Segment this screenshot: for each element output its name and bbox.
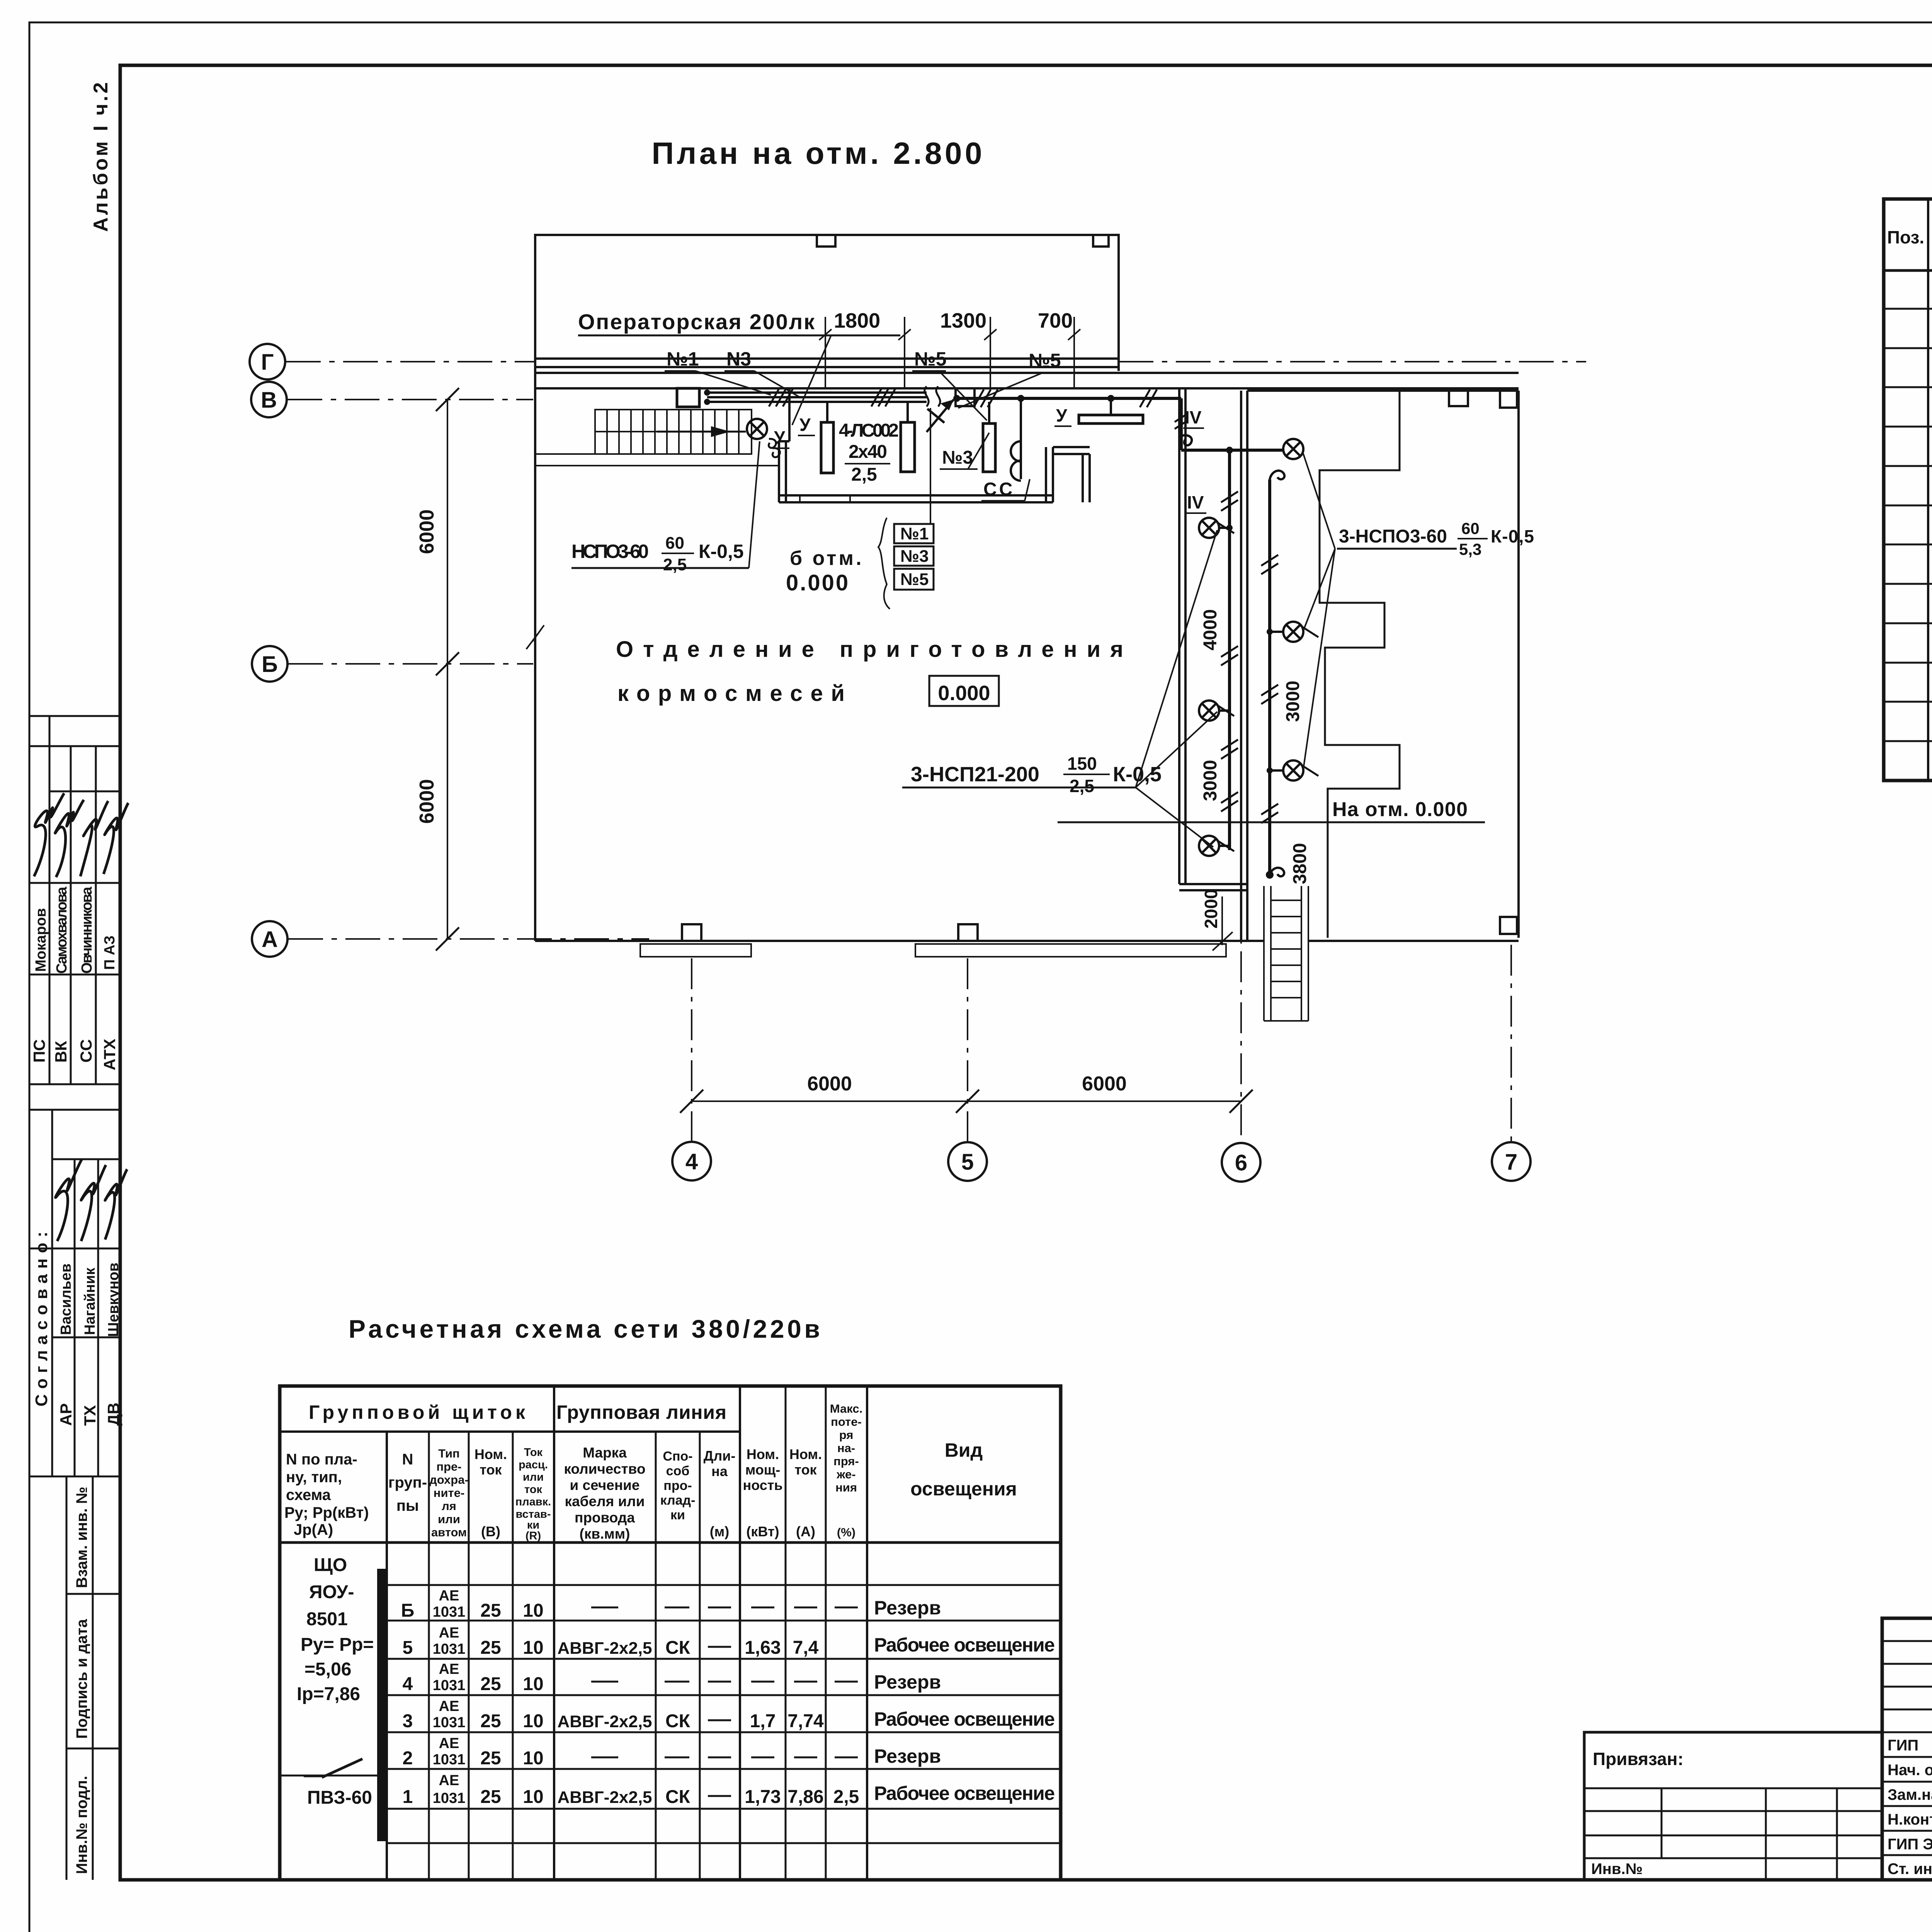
hash groups left wire	[1221, 492, 1238, 511]
svg-text:№3: №3	[942, 447, 973, 468]
svg-text:ЯОУ-: ЯОУ-	[309, 1582, 354, 1602]
svg-text:Jр(А): Jр(А)	[294, 1521, 333, 1538]
svg-text:Ток: Ток	[524, 1446, 543, 1459]
switch hooks near stair lamp	[769, 439, 780, 457]
svg-text:А: А	[262, 927, 278, 952]
svg-text:2: 2	[403, 1748, 413, 1769]
lamp R2	[1283, 622, 1318, 642]
fluorescent fixture 3	[983, 423, 995, 472]
svg-text:Рабочее освещение: Рабочее освещение	[874, 1634, 1055, 1656]
footing strip center	[915, 944, 1226, 957]
svg-text:(м): (м)	[710, 1524, 730, 1539]
level box 0.000	[929, 676, 999, 706]
svg-text:1031: 1031	[433, 1641, 466, 1657]
svg-text:груп-: груп-	[388, 1474, 427, 1491]
grid circle 5	[948, 1142, 987, 1181]
svg-text:25: 25	[480, 1748, 501, 1769]
svg-text:соб: соб	[666, 1464, 690, 1478]
привязан table	[1584, 1732, 1882, 1880]
stubs to right lamps	[1270, 631, 1283, 633]
svg-text:2,5: 2,5	[851, 464, 877, 485]
axis 5 dash-dot	[967, 958, 968, 1141]
wall break symbol	[526, 625, 544, 649]
wire bundle 3 lines	[707, 391, 927, 394]
svg-text:пре-: пре-	[436, 1460, 461, 1473]
svg-text:Iр=7,86: Iр=7,86	[297, 1684, 360, 1704]
fluorescent fixture 1	[821, 422, 833, 473]
hook drop symbol	[1181, 435, 1192, 445]
svg-text:Ном.: Ном.	[474, 1446, 507, 1462]
svg-text:Марка: Марка	[583, 1445, 627, 1461]
svg-text:Взам. инв. №: Взам. инв. №	[73, 1487, 90, 1588]
hash on wire	[974, 389, 998, 407]
svg-text:Резерв: Резерв	[874, 1597, 941, 1619]
operator room outline	[535, 235, 1119, 371]
right vertical wire	[1268, 480, 1271, 875]
svg-text:СК: СК	[665, 1638, 690, 1658]
svg-text:700: 700	[1038, 309, 1073, 332]
svg-text:ток: ток	[524, 1483, 543, 1496]
svg-text:N3: N3	[726, 348, 751, 370]
svg-text:или: или	[438, 1512, 460, 1526]
svg-text:же-: же-	[836, 1468, 855, 1481]
table grid	[280, 1386, 1061, 1880]
svg-text:6000: 6000	[1082, 1073, 1127, 1095]
svg-text:1031: 1031	[433, 1752, 466, 1768]
svg-text:ря: ря	[839, 1428, 854, 1442]
panel ЯОУ box	[677, 388, 699, 407]
svg-text:АЕ: АЕ	[439, 1625, 459, 1641]
grid circle 4	[672, 1142, 711, 1180]
svg-text:25: 25	[480, 1600, 501, 1621]
svg-text:150: 150	[1067, 753, 1097, 774]
bundle end dots	[704, 389, 710, 396]
svg-text:1,7: 1,7	[750, 1711, 776, 1731]
svg-text:IV: IV	[1187, 492, 1204, 512]
svg-text:10: 10	[523, 1600, 543, 1621]
svg-text:на: на	[711, 1463, 728, 1479]
corridor wall left double	[1178, 388, 1180, 884]
axis 4 dash-dot	[691, 958, 692, 1141]
column at grid 5	[958, 924, 978, 941]
vertical dimension line left	[447, 400, 448, 939]
svg-text:Рабочее освещение: Рабочее освещение	[874, 1708, 1055, 1730]
svg-text:на-: на-	[837, 1441, 855, 1455]
svg-text:2,5: 2,5	[1070, 776, 1094, 796]
svg-text:СК: СК	[665, 1711, 690, 1731]
svg-text:К-0,5: К-0,5	[1491, 526, 1534, 546]
svg-text:П АЗ: П АЗ	[102, 935, 118, 970]
svg-text:3: 3	[403, 1711, 413, 1731]
svg-text:(В): (В)	[481, 1524, 500, 1539]
junction dots left wire	[1226, 525, 1233, 531]
corridor closure bottom	[1179, 883, 1248, 885]
upper narrow rows	[1882, 1641, 1932, 1709]
svg-text:кабеля или: кабеля или	[565, 1493, 645, 1509]
svg-text:Нагайник: Нагайник	[82, 1267, 98, 1335]
svg-text:провода: провода	[575, 1510, 635, 1526]
lamp L2	[1199, 701, 1234, 721]
window detail in lower wall	[800, 495, 850, 502]
svg-text:ГИП: ГИП	[1888, 1737, 1918, 1754]
grid circle Г	[250, 344, 285, 379]
svg-text:расц.: расц.	[519, 1459, 548, 1471]
svg-text:6000: 6000	[416, 779, 438, 824]
right jog vertical double	[1082, 454, 1084, 502]
column headers	[284, 1402, 1017, 1542]
svg-text:В: В	[261, 388, 277, 413]
wall Г double line	[535, 357, 1119, 360]
svg-text:6: 6	[1235, 1150, 1247, 1175]
svg-text:5,3: 5,3	[1459, 540, 1481, 558]
svg-text:поте-: поте-	[831, 1415, 862, 1429]
svg-text:АЕ: АЕ	[439, 1661, 459, 1677]
svg-text:Мокаров: Мокаров	[33, 908, 49, 972]
svg-text:Операторская 200лк: Операторская 200лк	[578, 310, 815, 334]
grid numbers	[685, 1149, 1517, 1175]
svg-text:плавк.: плавк.	[515, 1496, 551, 1508]
building bottom wall	[535, 940, 1264, 942]
svg-text:4000: 4000	[1200, 609, 1221, 651]
axis 6 dash-dot	[1240, 900, 1242, 1142]
svg-text:1800: 1800	[834, 309, 880, 332]
svg-text:НСПО3-60: НСПО3-60	[571, 541, 649, 562]
svg-text:Групповой щиток: Групповой щиток	[309, 1401, 526, 1423]
svg-text:ГИП Э: ГИП Э	[1888, 1836, 1932, 1853]
svg-text:дохра-: дохра-	[429, 1473, 469, 1486]
svg-text:АВВГ-2х2,5: АВВГ-2х2,5	[557, 1639, 652, 1658]
svg-text:25: 25	[480, 1787, 501, 1807]
svg-text:Б: Б	[262, 652, 278, 677]
operator room left wall double	[778, 441, 780, 502]
svg-text:№5: №5	[914, 348, 947, 370]
lighting kind column	[874, 1597, 1055, 1804]
svg-text:0.000: 0.000	[938, 682, 990, 705]
svg-text:ЩО: ЩО	[314, 1555, 347, 1575]
svg-text:1,73: 1,73	[745, 1787, 781, 1807]
panel id texts col1	[297, 1555, 374, 1808]
svg-text:АЕ: АЕ	[439, 1735, 459, 1752]
svg-text:2,5: 2,5	[663, 555, 687, 574]
svg-text:ТХ: ТХ	[81, 1405, 99, 1426]
svg-text:Спо-: Спо-	[663, 1449, 692, 1464]
svg-text:0.000: 0.000	[786, 570, 850, 595]
staircase block	[595, 410, 752, 454]
svg-text:автом: автом	[431, 1526, 467, 1539]
svg-text:4: 4	[403, 1674, 413, 1694]
wall В double line	[535, 372, 1519, 374]
arrow into stairs	[657, 431, 746, 433]
switch symbol	[304, 1776, 322, 1777]
svg-text:Согласовано:: Согласовано:	[32, 1226, 51, 1406]
svg-text:25: 25	[480, 1674, 501, 1694]
svg-text:=5,06: =5,06	[304, 1659, 351, 1680]
svg-text:6000: 6000	[807, 1073, 852, 1095]
svg-text:10: 10	[523, 1638, 543, 1658]
hash on corner	[1175, 413, 1188, 429]
svg-text:№3: №3	[900, 547, 929, 566]
svg-text:Дли-: Дли-	[704, 1448, 736, 1464]
right building top wall	[1247, 389, 1519, 392]
vestibule lines below stairs	[535, 453, 752, 455]
svg-text:5: 5	[403, 1638, 413, 1658]
column marks on top wall	[817, 235, 835, 247]
svg-text:На отм. 0.000: На отм. 0.000	[1332, 798, 1468, 821]
svg-text:Н.контр.: Н.контр.	[1888, 1811, 1932, 1828]
svg-text:Отделение приготовления: Отделение приготовления	[616, 637, 1123, 662]
leader from 200лк to fixture	[792, 336, 831, 425]
group number boxes	[878, 408, 934, 609]
svg-text:Тип: Тип	[438, 1447, 460, 1460]
axis Г dash-dot line	[286, 361, 1586, 362]
svg-text:Г: Г	[261, 350, 274, 375]
svg-text:АЕ: АЕ	[439, 1588, 459, 1604]
svg-text:IV: IV	[1185, 407, 1202, 427]
title block outline	[1882, 1618, 1932, 1880]
lamp R3	[1283, 760, 1318, 781]
svg-text:2000: 2000	[1201, 889, 1221, 929]
svg-text:У: У	[1056, 405, 1068, 425]
svg-text:ки: ки	[670, 1508, 685, 1522]
horizontal dimension line bottom	[692, 1100, 1241, 1102]
svg-text:Альбом I ч.2: Альбом I ч.2	[90, 80, 112, 232]
svg-text:б отм.: б отм.	[790, 547, 864, 570]
grid circle 7	[1492, 1142, 1531, 1181]
svg-text:Овчинникова: Овчинникова	[79, 886, 95, 974]
operator room right wall double	[1045, 447, 1047, 502]
svg-text:(R): (R)	[526, 1530, 541, 1542]
dim leader verticals	[792, 317, 1080, 425]
staff rows	[1882, 1732, 1932, 1855]
svg-text:АВВГ-2х2,5: АВВГ-2х2,5	[557, 1788, 652, 1807]
corridor wall right double	[1240, 391, 1242, 941]
svg-text:схема: схема	[286, 1486, 331, 1503]
svg-text:(А): (А)	[796, 1524, 815, 1539]
svg-text:10: 10	[523, 1674, 543, 1694]
left vertical wire	[1228, 450, 1231, 850]
svg-text:1,63: 1,63	[745, 1638, 781, 1658]
svg-text:4-ЛС002: 4-ЛС002	[839, 420, 899, 441]
svg-text:У: У	[799, 415, 811, 435]
svg-text:10: 10	[523, 1711, 543, 1731]
svg-text:или: или	[523, 1471, 544, 1483]
svg-text:Поз.: Поз.	[1887, 227, 1924, 247]
svg-text:Резерв: Резерв	[874, 1745, 941, 1767]
right building partition E-shape	[1320, 391, 1400, 938]
second approval table lines	[29, 1109, 120, 1111]
hash groups right wire	[1261, 555, 1278, 574]
svg-text:ность: ность	[743, 1477, 782, 1493]
svg-text:пря-: пря-	[833, 1454, 859, 1468]
right jog horizontal double	[1053, 446, 1090, 448]
svg-text:СС: СС	[983, 479, 1015, 500]
ladder rungs	[1271, 900, 1301, 998]
dim 2000 tick line	[1221, 896, 1223, 945]
svg-text:Подпись и дата: Подпись и дата	[73, 1619, 90, 1739]
svg-text:7: 7	[1505, 1150, 1517, 1175]
svg-text:Ст. инж.: Ст. инж.	[1888, 1861, 1932, 1878]
svg-text:АЕ: АЕ	[439, 1772, 459, 1789]
axis 7 dash-dot	[1510, 945, 1512, 1141]
cable break symbol	[925, 386, 940, 406]
grid circle Б	[252, 646, 287, 682]
pendant bar luminaire	[1079, 415, 1143, 423]
junction to CC device	[1017, 395, 1024, 402]
svg-text:мощ-: мощ-	[745, 1462, 781, 1478]
svg-text:и сечение: и сечение	[570, 1477, 640, 1493]
svg-text:освещения: освещения	[910, 1478, 1017, 1500]
hash marks on bundle	[769, 389, 793, 406]
svg-text:1: 1	[403, 1787, 413, 1807]
lamp R1	[1283, 439, 1303, 459]
operator room lower wall double	[779, 494, 1053, 497]
svg-text:(%): (%)	[837, 1526, 855, 1539]
svg-text:3-НСПО3-60: 3-НСПО3-60	[1339, 526, 1447, 547]
svg-text:3000: 3000	[1283, 681, 1303, 722]
svg-text:Привязан:: Привязан:	[1593, 1749, 1684, 1769]
svg-text:7,74: 7,74	[787, 1711, 824, 1731]
CC device arcs	[1011, 441, 1021, 481]
bus bar	[377, 1569, 386, 1841]
dash marks for reserve rows	[591, 1607, 858, 1796]
svg-text:10: 10	[523, 1787, 543, 1807]
building right wall	[1517, 391, 1520, 938]
svg-text:4: 4	[685, 1149, 698, 1174]
axis В dash-dot line	[287, 399, 533, 400]
svg-text:У: У	[774, 427, 786, 447]
lower filing cells	[66, 1593, 120, 1595]
column at grid 4	[682, 924, 701, 941]
svg-text:ну, тип,: ну, тип,	[286, 1469, 342, 1486]
svg-text:ток: ток	[794, 1462, 817, 1478]
dim ticks vertical line	[436, 388, 459, 411]
svg-text:Васильев: Васильев	[58, 1264, 74, 1335]
svg-text:ПВЗ-60: ПВЗ-60	[307, 1787, 372, 1808]
svg-text:7,4: 7,4	[793, 1638, 819, 1658]
svg-text:5: 5	[961, 1150, 974, 1175]
svg-text:АЕ: АЕ	[439, 1698, 459, 1714]
footing strip left	[640, 944, 751, 957]
signatures upper table	[34, 793, 128, 1241]
stubs to left lamps	[1219, 527, 1230, 529]
svg-text:25: 25	[480, 1711, 501, 1731]
hook top	[1270, 471, 1284, 480]
svg-text:6000: 6000	[416, 509, 438, 554]
svg-text:Ном.: Ном.	[789, 1446, 822, 1462]
axis А dash-dot line	[288, 938, 649, 940]
svg-text:№1: №1	[900, 524, 929, 543]
grid letters	[261, 350, 278, 952]
svg-text:3-НСП21-200: 3-НСП21-200	[911, 763, 1039, 786]
header texts	[1887, 221, 1932, 262]
svg-text:ния: ния	[835, 1481, 857, 1494]
svg-text:Инв.№: Инв.№	[1591, 1861, 1643, 1878]
svg-text:1031: 1031	[433, 1714, 466, 1731]
svg-text:Вид: Вид	[945, 1439, 983, 1461]
underline	[578, 335, 900, 337]
svg-text:Зам.нач.: Зам.нач.	[1888, 1786, 1932, 1803]
svg-text:Шевкунов: Шевкунов	[105, 1263, 122, 1337]
shaft bottom	[1264, 1020, 1308, 1022]
svg-text:60: 60	[665, 534, 684, 553]
svg-text:(кВт): (кВт)	[746, 1524, 779, 1539]
wire continues right	[957, 397, 1181, 400]
svg-text:АР: АР	[57, 1403, 75, 1426]
svg-text:(кв.мм): (кв.мм)	[580, 1526, 630, 1542]
svg-text:СК: СК	[665, 1787, 690, 1807]
svg-text:№1: №1	[667, 348, 699, 370]
svg-text:пы: пы	[396, 1497, 419, 1514]
svg-text:№5: №5	[900, 570, 929, 589]
svg-text:Ру; Рр(кВт): Ру; Рр(кВт)	[284, 1504, 369, 1521]
svg-text:60: 60	[1461, 519, 1480, 537]
svg-text:1031: 1031	[433, 1604, 466, 1620]
upper table names (rotated)	[30, 886, 122, 1874]
svg-text:Резерв: Резерв	[874, 1671, 941, 1693]
svg-text:АВВГ-2х2,5: АВВГ-2х2,5	[557, 1712, 652, 1731]
svg-text:1031: 1031	[433, 1677, 466, 1694]
svg-text:Ру= Рр=: Ру= Рр=	[301, 1634, 374, 1655]
column marks under wall В	[956, 388, 975, 406]
building left wall	[534, 362, 536, 941]
svg-text:ПС: ПС	[30, 1039, 48, 1063]
svg-text:Нач. отд.: Нач. отд.	[1888, 1762, 1932, 1779]
column right bottom corner	[1500, 917, 1517, 934]
drops to fixtures	[826, 402, 828, 422]
grid circle В	[251, 382, 287, 417]
fluorescent fixture 2	[901, 422, 915, 472]
svg-text:Макс.: Макс.	[830, 1402, 862, 1415]
svg-text:N по пла-: N по пла-	[286, 1451, 357, 1468]
svg-text:ВК: ВК	[52, 1041, 70, 1063]
svg-text:ля: ля	[442, 1499, 456, 1513]
svg-text:N: N	[402, 1451, 413, 1468]
table grid	[1884, 199, 1932, 781]
svg-text:25: 25	[480, 1638, 501, 1658]
svg-text:10: 10	[523, 1748, 543, 1769]
svg-text:7,86: 7,86	[787, 1787, 823, 1807]
lamp near stairs	[747, 419, 767, 439]
svg-text:№5: №5	[1029, 350, 1061, 371]
svg-text:количество: количество	[564, 1461, 645, 1477]
svg-text:ДВ: ДВ	[104, 1403, 122, 1426]
junction to pendant	[1107, 395, 1114, 402]
svg-text:8501: 8501	[306, 1609, 348, 1629]
svg-text:Рабочее освещение: Рабочее освещение	[874, 1782, 1055, 1804]
svg-text:клад-: клад-	[660, 1493, 696, 1508]
upper approval table lines	[29, 715, 120, 717]
svg-text:Ном.: Ном.	[747, 1446, 779, 1462]
step to wall В	[779, 440, 789, 442]
wire corner down	[1180, 398, 1183, 450]
svg-text:3800: 3800	[1290, 843, 1310, 884]
grid circle А	[252, 921, 287, 957]
svg-text:ните-: ните-	[434, 1486, 465, 1500]
svg-text:Самохвалова: Самохвалова	[54, 886, 70, 974]
grid circle 6	[1222, 1143, 1260, 1182]
svg-text:1300: 1300	[940, 309, 986, 332]
staff labels	[1888, 1737, 1932, 1878]
axis Б dash-dot line	[288, 663, 533, 665]
hook bottom with dot	[1266, 871, 1274, 879]
wire to right lamp	[1181, 449, 1284, 452]
svg-text:ток: ток	[480, 1462, 502, 1478]
svg-text:2х40: 2х40	[849, 442, 887, 462]
lamp L3	[1199, 836, 1234, 856]
svg-text:Б: Б	[401, 1600, 415, 1621]
svg-text:АТХ: АТХ	[100, 1039, 119, 1070]
svg-text:Групповая линия: Групповая линия	[556, 1401, 726, 1423]
